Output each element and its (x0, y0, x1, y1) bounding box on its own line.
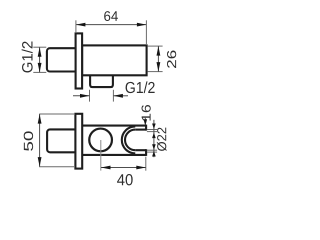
dim O22 inside up arrow (152, 133, 156, 139)
dim G1/2 left ext top (33, 46, 46, 48)
fork top prong end cap (145, 125, 147, 131)
dim 64 arrow left (76, 23, 86, 27)
dim O22 outside down arrow (152, 124, 156, 130)
holder arm white fill (82, 125, 146, 156)
dim 50 arrow down (38, 157, 42, 167)
elbow body (82, 45, 147, 75)
dim 40 line (101, 167, 146, 169)
label G1/2 left (22, 42, 33, 73)
label 50 (24, 131, 33, 151)
fork inner arc (125, 130, 135, 151)
outlet stub G1/2 (90, 74, 113, 87)
dim 26 arrow down (157, 62, 161, 72)
ext line D (147, 151, 157, 153)
dim 50 ext top (39, 113, 74, 115)
label O22 (157, 128, 167, 151)
dim O22 outside up arrow (152, 151, 156, 157)
ext line A (prong inner top) (147, 129, 157, 131)
ext line C (prong inner bottom) (147, 149, 157, 151)
inlet pipe stub lower (47, 129, 77, 152)
dim 26 arrow up (157, 46, 161, 56)
fork bottom prong inner edge (135, 149, 146, 151)
dim 26 ext bottom (148, 71, 163, 73)
dim G1/2 left line (39, 47, 41, 72)
dim G1/2 bottom ext right (112, 90, 114, 102)
fork top prong inner edge (135, 129, 146, 131)
holder arm top line (82, 125, 146, 127)
dim G1/2 bottom line left (73, 95, 90, 97)
label 64 (104, 11, 118, 21)
wall flange (76, 33, 83, 88)
pivot centerline (100, 140, 102, 171)
dim 50 line (39, 114, 41, 167)
dim 26 ext top (148, 45, 163, 47)
dim G1/2 left arrow up (38, 47, 42, 57)
dim 40 arrow right (136, 166, 146, 170)
pivot circle (89, 129, 112, 152)
dim 64 arrow right (137, 23, 147, 27)
dim G1/2 bottom line right (113, 95, 128, 97)
dim 50 ext bottom (39, 166, 74, 168)
label 40 (117, 174, 133, 185)
holder arm bottom line (82, 154, 146, 156)
dim G1/2 left ext bottom (33, 71, 46, 73)
dim 26 line (157, 46, 159, 72)
dim G1/2 bottom arrow pointing right (80, 94, 90, 98)
fork outer arc (122, 126, 136, 153)
dim 64 line (76, 24, 146, 26)
dim 64 ext line left (75, 20, 77, 32)
ext line B (147, 131, 157, 133)
dim O22 line (153, 120, 155, 157)
dim 64 ext line right (145, 20, 147, 44)
dim 16 leader line (144, 118, 146, 123)
dim 50 arrow up (38, 114, 42, 124)
dim O22 inside down arrow (152, 144, 156, 150)
dim G1/2 bottom ext left (89, 90, 91, 102)
dim G1/2 bottom arrow pointing left (113, 94, 123, 98)
dim 16 arrow down (144, 119, 148, 126)
dim 40 ext right (145, 157, 147, 171)
dim 40 arrow left (101, 166, 111, 170)
wall flange lower (75, 114, 82, 169)
label 26 (167, 51, 176, 68)
label G1/2 bottom (126, 81, 155, 93)
fork bottom prong end cap (145, 149, 147, 156)
dim G1/2 left arrow down (38, 63, 42, 73)
label 16 (142, 105, 151, 121)
inlet pipe stub G1/2 (47, 48, 78, 71)
